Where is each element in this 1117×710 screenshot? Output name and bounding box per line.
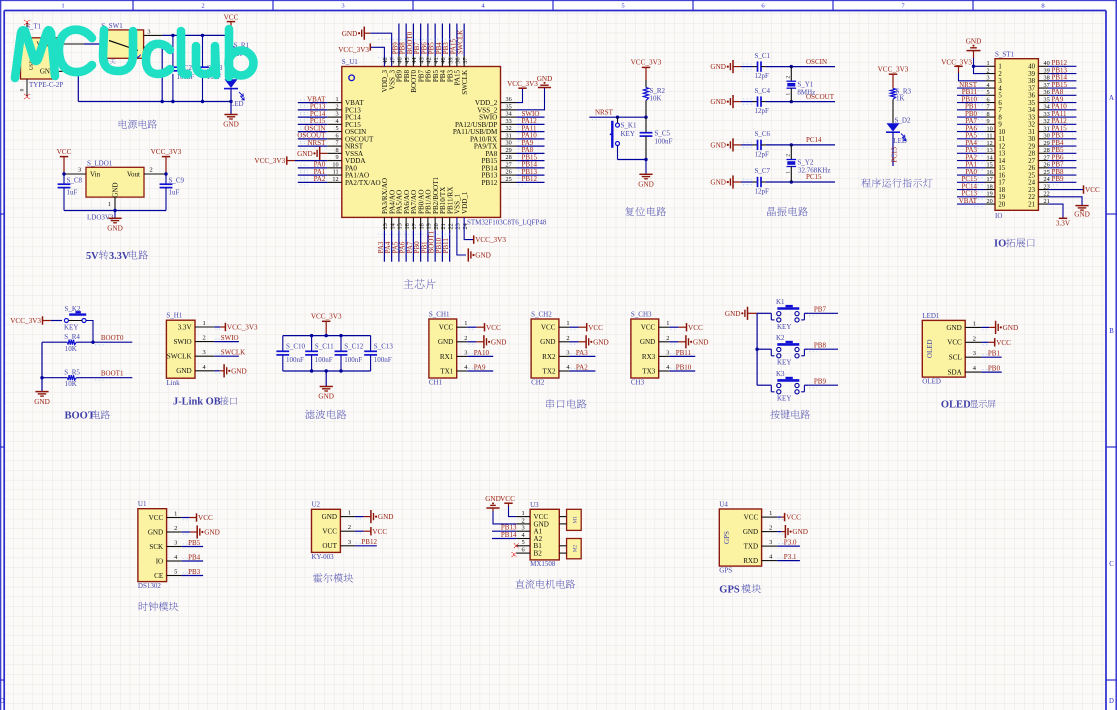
svg-text:23: 23 <box>455 223 462 229</box>
svg-text:15: 15 <box>397 223 404 229</box>
capacitor S_C12 100nF <box>335 336 364 371</box>
svg-text:17: 17 <box>998 180 1005 187</box>
svg-text:TX2: TX2 <box>542 367 555 375</box>
junction LDO input <box>62 172 65 175</box>
svg-text:VCC_3V3: VCC_3V3 <box>338 46 369 54</box>
junction filter top <box>310 334 343 337</box>
ST1 pin 16 stub <box>985 169 995 176</box>
svg-text:13: 13 <box>998 151 1005 158</box>
ground S_C7 <box>710 175 741 188</box>
ground pin 2 <box>777 525 808 538</box>
junction LDO gnd <box>113 209 116 212</box>
svg-text:12: 12 <box>998 143 1005 150</box>
svg-text:12pF: 12pF <box>755 107 770 115</box>
rtc U1 DS1302 pin 4 (IO) stub <box>167 554 182 561</box>
capacitor S_C2 100nF <box>167 64 195 81</box>
U1 pin 12 stub <box>327 176 342 183</box>
svg-text:VCC: VCC <box>322 528 337 536</box>
svg-text:37: 37 <box>1028 85 1035 92</box>
svg-text:PB9: PB9 <box>1052 175 1065 183</box>
ST1 pin 1 stub <box>985 60 995 67</box>
wire / net label PB12 <box>355 538 378 546</box>
ground pin 2 <box>569 335 608 348</box>
connector H1 J-Link pin 3 (SWCLK) stub <box>195 349 214 356</box>
wire / net label PB0 vertical <box>413 217 421 261</box>
T1 pin 2 GND stub <box>57 64 84 72</box>
svg-text:1K: 1K <box>896 95 905 103</box>
wire / net label PA15 <box>1048 124 1076 134</box>
power VCC pin 1 <box>777 513 801 522</box>
junction boot rail <box>40 376 43 379</box>
svg-text:100nF: 100nF <box>315 356 333 364</box>
wire / net label PA11 <box>517 124 545 134</box>
svg-text:KEY: KEY <box>64 323 78 331</box>
wire / net label PA3 vertical <box>377 217 385 261</box>
svg-text:VCC: VCC <box>57 148 72 156</box>
svg-text:2: 2 <box>786 154 792 157</box>
svg-text:S_R2: S_R2 <box>650 87 666 95</box>
wire / net label PB4 <box>182 553 204 561</box>
svg-text:1uF: 1uF <box>67 189 78 197</box>
svg-text:B2: B2 <box>534 550 543 558</box>
svg-text:GND: GND <box>638 181 654 189</box>
svg-text:S_C12: S_C12 <box>344 342 364 350</box>
U1 pin 27 stub <box>501 161 517 168</box>
svg-text:3: 3 <box>987 75 990 82</box>
ground ST1 pins 1-2 <box>966 38 986 74</box>
svg-text:6: 6 <box>987 96 990 103</box>
svg-text:GND: GND <box>223 121 239 129</box>
svg-text:PB10: PB10 <box>676 363 692 371</box>
svg-text:M2: M2 <box>573 544 579 552</box>
junction buttons rail K2 <box>755 348 758 351</box>
wire filter bottom rail <box>283 370 371 372</box>
svg-text:OLED: OLED <box>922 378 941 386</box>
power VCC_3V3 pin 1 <box>214 323 258 332</box>
svg-text:40: 40 <box>440 57 447 63</box>
regulator S_LDO1 LDO3V3 <box>86 160 144 198</box>
LDO pin 1 stub <box>108 197 115 210</box>
svg-text:45: 45 <box>404 57 411 63</box>
connector CH1 serial pin 4 (TX1) stub <box>457 364 469 371</box>
wire / net label SWCLK <box>214 349 245 357</box>
resistor S_R4 10K <box>42 333 93 353</box>
title main chip <box>403 279 435 289</box>
svg-text:1: 1 <box>348 510 351 517</box>
ground filter <box>318 371 334 401</box>
wire / net label NRST <box>957 81 985 91</box>
svg-text:40: 40 <box>1028 64 1035 71</box>
svg-text:VCC: VCC <box>149 514 164 522</box>
svg-text:15: 15 <box>998 165 1005 172</box>
svg-text:PB12: PB12 <box>361 538 377 546</box>
U1 pin 10 stub <box>327 161 342 168</box>
wire / net label SWCLK vertical <box>457 24 465 67</box>
svg-text:3: 3 <box>348 539 351 546</box>
wire / net label PA8 <box>1048 88 1076 98</box>
svg-text:46: 46 <box>397 57 404 63</box>
wire / net label PC13 <box>957 190 985 200</box>
svg-text:21: 21 <box>1028 201 1035 208</box>
svg-text:35: 35 <box>1028 100 1035 107</box>
U1 pin 42 number <box>426 57 433 63</box>
svg-text:PB4: PB4 <box>188 553 201 561</box>
svg-text:26: 26 <box>1028 165 1035 172</box>
wire U1 VSS_1 pin23 to GND <box>457 217 491 261</box>
title OLED display <box>941 399 996 410</box>
svg-text:36: 36 <box>1028 93 1035 100</box>
display LED1 OLED pin 2 (VCC) stub <box>965 335 981 342</box>
ST1 pin 15 stub <box>985 162 995 169</box>
U1 pin 35 stub <box>501 103 517 110</box>
svg-text:B: B <box>1109 328 1114 335</box>
junction top rail C3 <box>201 34 204 37</box>
svg-text:S_Y2: S_Y2 <box>797 159 813 167</box>
ST1 pin 39 stub <box>1038 67 1049 74</box>
U1 pin 38 number <box>455 57 462 63</box>
rtc U1 DS1302 pin 5 (CE) stub <box>167 569 182 576</box>
wire / net label PB10 <box>669 363 695 371</box>
wire / net label PB11 <box>669 349 695 357</box>
svg-text:GND: GND <box>438 338 453 346</box>
wire / net label PB14 <box>1048 74 1076 84</box>
svg-text:GND: GND <box>491 338 507 346</box>
svg-text:27: 27 <box>1028 158 1035 165</box>
wire / net label SWIO <box>214 334 239 342</box>
svg-text:1: 1 <box>786 171 792 174</box>
wire / net label PB3 vertical <box>442 24 450 67</box>
svg-text:VCC_3V3: VCC_3V3 <box>227 324 258 332</box>
power VCC pin 2 <box>981 338 1011 347</box>
U1 pin 16 number <box>404 223 411 229</box>
svg-text:VBAT: VBAT <box>959 197 978 205</box>
svg-text:2: 2 <box>769 525 772 532</box>
title clock module <box>139 602 179 611</box>
svg-text:3.3V: 3.3V <box>178 323 193 331</box>
wire / net label PA6 vertical <box>399 217 407 261</box>
U1 pin 41 number <box>433 57 440 63</box>
svg-text:1: 1 <box>108 201 111 208</box>
svg-text:VCC: VCC <box>198 514 213 522</box>
svg-text:K2: K2 <box>776 334 785 342</box>
U1 pin 21 number <box>440 223 447 229</box>
motor connector M2 <box>559 539 581 559</box>
svg-text:2: 2 <box>998 71 1002 78</box>
U1 pin 19 number <box>426 223 433 229</box>
svg-text:2: 2 <box>666 335 669 342</box>
connector H1 J-Link pin 2 (SWIO) stub <box>195 335 214 342</box>
rtc U1 DS1302 body <box>138 500 167 590</box>
wire / net label PB9 vertical <box>391 24 399 67</box>
wire S_C6 to net PC14 <box>766 136 835 145</box>
svg-text:44: 44 <box>411 57 418 63</box>
ST1 pin 19 stub <box>985 191 995 198</box>
svg-text:1: 1 <box>336 96 339 103</box>
wire / net label OSCIN <box>298 124 327 134</box>
wire / net label PA1 <box>298 168 327 178</box>
svg-text:20: 20 <box>433 223 440 229</box>
svg-text:21: 21 <box>440 223 447 229</box>
svg-text:VCC: VCC <box>588 324 603 332</box>
svg-text:VCC_3V3: VCC_3V3 <box>254 157 285 165</box>
svg-text:18: 18 <box>987 183 993 190</box>
MCUclub logo <box>15 29 254 78</box>
svg-text:28: 28 <box>506 154 512 161</box>
wire / net label PA9 <box>1048 95 1076 105</box>
svg-text:S_C10: S_C10 <box>286 342 306 350</box>
svg-text:1: 1 <box>769 510 772 517</box>
svg-text:11: 11 <box>333 169 339 176</box>
ST1 pin 11 stub <box>985 133 995 140</box>
power port VCC LDO input <box>57 148 72 174</box>
wire / net label PB13 <box>492 524 517 532</box>
svg-text:39: 39 <box>447 57 454 63</box>
wire VBUS to switch <box>84 43 101 45</box>
svg-text:2: 2 <box>566 335 569 342</box>
svg-text:SWIO: SWIO <box>221 334 239 342</box>
svg-text:GND: GND <box>204 529 220 537</box>
svg-text:KEY: KEY <box>777 359 791 367</box>
ground pin 1 <box>981 321 1018 334</box>
svg-text:20: 20 <box>987 198 993 205</box>
svg-text:S_C6: S_C6 <box>755 130 771 138</box>
wire / net label PB0 <box>981 365 1001 373</box>
svg-text:1: 1 <box>987 60 990 67</box>
junction crystal PC14 <box>790 143 793 146</box>
connector CH2 serial body <box>531 310 559 386</box>
svg-text:S_CH2: S_CH2 <box>531 310 552 318</box>
ST1 pin 3 stub <box>985 75 995 82</box>
svg-text:VCC_3V3: VCC_3V3 <box>631 59 662 67</box>
svg-text:3: 3 <box>203 349 206 356</box>
svg-text:20: 20 <box>998 201 1005 208</box>
ground pin 1 <box>355 510 394 523</box>
svg-text:MX1508: MX1508 <box>530 560 556 568</box>
svg-text:43: 43 <box>418 57 425 63</box>
svg-text:3: 3 <box>566 349 569 356</box>
wire bottom rail power circuit <box>78 71 231 101</box>
ST1 pin 4 stub <box>985 82 995 89</box>
svg-text:S_K1: S_K1 <box>621 122 637 130</box>
svg-text:PA2: PA2 <box>314 175 326 183</box>
svg-text:GND: GND <box>148 528 163 536</box>
svg-text:24: 24 <box>1028 180 1035 187</box>
U1 pin 47 number <box>389 57 396 63</box>
wire buttons left rail <box>756 313 758 385</box>
svg-text:VCC: VCC <box>224 13 239 21</box>
svg-text:KEY: KEY <box>777 323 791 331</box>
connector CH3 serial pin 3 (RX3) stub <box>659 349 670 356</box>
wire / net label BOOT1 <box>93 370 132 381</box>
capacitor S_C4 12pF <box>753 87 771 115</box>
connector CH1 serial pin 2 (GND) stub <box>457 335 468 342</box>
svg-text:A: A <box>1109 95 1114 102</box>
U1 pin 24 number <box>462 223 469 229</box>
ST1 pin 2 stub <box>985 67 995 74</box>
title J-Link OB <box>173 396 237 407</box>
wire / net label PB7 <box>808 306 838 316</box>
junction NRST <box>616 116 648 119</box>
ground pin 2 <box>467 335 506 348</box>
power VCC_3V3 boot <box>10 316 51 325</box>
svg-text:12: 12 <box>332 176 338 183</box>
svg-text:3: 3 <box>522 525 525 532</box>
power port VCC <box>224 13 239 35</box>
wire / net label PA7 <box>957 117 985 127</box>
svg-text:S_R5: S_R5 <box>64 369 80 377</box>
key S_K1 reset button <box>610 117 637 159</box>
wire LDO bottom rail <box>64 210 166 212</box>
svg-text:M1: M1 <box>573 516 579 524</box>
U1 pin 2 stub <box>327 103 342 110</box>
svg-text:36: 36 <box>506 96 512 103</box>
svg-text:3: 3 <box>174 540 177 547</box>
key S_K2 boot button <box>51 305 93 342</box>
svg-text:6: 6 <box>336 132 339 139</box>
svg-text:2: 2 <box>522 517 525 524</box>
wire / net label PB13 <box>1048 66 1076 76</box>
svg-text:GND: GND <box>231 367 247 375</box>
svg-text:1: 1 <box>998 64 1001 71</box>
wire U1 VDD_1 pin24 to VCC_3V3 <box>464 217 506 244</box>
wire / net label PA15 vertical <box>449 24 457 67</box>
svg-text:1: 1 <box>174 511 177 518</box>
svg-text:PB1: PB1 <box>988 350 1001 358</box>
svg-text:TYPE-C-2P: TYPE-C-2P <box>29 81 63 89</box>
junction top rail C2 <box>171 34 174 37</box>
svg-text:SCK: SCK <box>149 543 164 551</box>
svg-text:GND: GND <box>485 495 501 503</box>
svg-text:1: 1 <box>61 3 64 10</box>
capacitor S_C10 100nF <box>276 336 305 371</box>
svg-text:1: 1 <box>566 320 569 327</box>
svg-text:3.3V: 3.3V <box>109 251 130 262</box>
power VCC_3V3 ST1 pin 3 <box>941 58 985 80</box>
svg-text:GND: GND <box>640 338 655 346</box>
title crystal circuit <box>767 207 808 216</box>
wire / net label PC14 <box>298 110 327 120</box>
U1 pin 17 number <box>411 223 418 229</box>
ground S_C4 <box>710 95 741 108</box>
U1 pin 23 number <box>455 223 462 229</box>
svg-text:VCC: VCC <box>439 324 454 332</box>
ST1 pin 29 stub <box>1038 140 1049 147</box>
svg-text:S_LDO1: S_LDO1 <box>87 160 113 168</box>
ST1 pin 38 stub <box>1038 75 1049 82</box>
connector S_T1 TYPE-C-2P <box>21 23 64 89</box>
wire / net label BOOT0 vertical <box>406 24 414 67</box>
wire LED to PC13 / net label PC13 vertical <box>891 132 899 166</box>
ST1 pin 40 stub <box>1038 60 1049 67</box>
svg-text:LED1: LED1 <box>922 312 940 320</box>
svg-text:14: 14 <box>987 154 993 161</box>
svg-text:3: 3 <box>769 539 772 546</box>
svg-text:GND: GND <box>792 528 808 536</box>
svg-text:29: 29 <box>506 147 512 154</box>
wire / net label VBAT <box>298 95 327 105</box>
svg-text:S_C8: S_C8 <box>67 177 83 185</box>
LED S_D2 power <box>224 79 244 108</box>
svg-text:34: 34 <box>1028 107 1035 114</box>
connector CH2 serial pin 4 (TX2) stub <box>559 364 571 371</box>
resistor S_R5 10K <box>42 369 93 389</box>
svg-text:OLED: OLED <box>926 339 934 358</box>
svg-text:VCC: VCC <box>688 324 703 332</box>
wire / net label PB15 <box>1048 81 1076 91</box>
svg-text:PB7: PB7 <box>814 306 827 314</box>
dotted compile marks bottom pins <box>378 234 450 248</box>
power VCC pin 2 <box>355 527 387 536</box>
ST1 pin 35 stub <box>1038 96 1049 103</box>
svg-text:GND: GND <box>710 179 726 187</box>
capacitor S_C1 12pF <box>753 52 771 80</box>
svg-text:KEY: KEY <box>621 130 635 138</box>
SW1 pin 3 stub <box>144 29 163 36</box>
svg-text:BOOT0: BOOT0 <box>101 334 124 342</box>
svg-text:16: 16 <box>404 223 411 229</box>
wire / net label PB9 <box>808 377 838 387</box>
svg-text:IO: IO <box>994 239 1006 250</box>
svg-text:GPS: GPS <box>719 567 732 575</box>
wire / net label PB12 <box>1048 59 1076 69</box>
power VCC pin 1 <box>467 323 501 332</box>
svg-text:7: 7 <box>336 140 339 147</box>
connector S_ST1 IO header body <box>995 51 1038 220</box>
svg-text:25: 25 <box>1028 172 1035 179</box>
svg-text:S_H1: S_H1 <box>166 312 182 320</box>
wire / net label PB7 vertical <box>413 24 421 67</box>
svg-text:1: 1 <box>786 93 792 96</box>
svg-text:SWCLK: SWCLK <box>221 349 246 357</box>
wire / net label VBAT <box>957 197 985 207</box>
svg-text:31: 31 <box>1028 129 1035 136</box>
svg-text:8: 8 <box>998 114 1002 121</box>
junction BOOT0 <box>91 341 94 344</box>
wire / net label PA6 <box>957 124 985 134</box>
svg-text:13: 13 <box>987 147 993 154</box>
svg-text:GND: GND <box>342 30 358 38</box>
connector CH3 serial pin 1 (VCC) stub <box>659 320 670 327</box>
svg-text:VCC: VCC <box>372 528 387 536</box>
svg-text:TXD: TXD <box>744 543 759 551</box>
svg-text:Link: Link <box>166 379 180 387</box>
rtc U1 DS1302 pin 2 (GND) stub <box>167 525 182 532</box>
svg-text:42: 42 <box>426 57 433 63</box>
svg-text:RXD: RXD <box>743 557 758 565</box>
svg-text:VCC_3V3: VCC_3V3 <box>475 236 506 244</box>
svg-text:12pF: 12pF <box>755 72 770 80</box>
svg-text:GND: GND <box>1074 210 1090 218</box>
svg-text:3: 3 <box>147 29 150 36</box>
wire / net label PB11 vertical <box>442 217 450 261</box>
power VCC_3V3 indicator <box>878 65 909 88</box>
svg-text:35: 35 <box>506 103 512 110</box>
svg-text:100nF: 100nF <box>344 356 362 364</box>
mcu U1 STM32F103C8T6 body <box>342 58 547 227</box>
wire / net label PB5 vertical <box>428 24 436 67</box>
motor connector M1 <box>559 509 581 530</box>
wire / net label PA3 <box>569 349 595 357</box>
power VCC pin 1 <box>569 323 603 332</box>
svg-text:2: 2 <box>150 167 153 174</box>
svg-text:GND: GND <box>593 338 609 346</box>
svg-text:S_C1: S_C1 <box>755 52 771 60</box>
svg-text:8: 8 <box>336 147 339 154</box>
wire / net label P3.1 <box>777 553 800 561</box>
ST1 pin 34 stub <box>1038 104 1049 111</box>
connector H1 J-Link pin 4 (GND) stub <box>195 364 214 371</box>
hall U2 KY-003 pin 2 (VCC) stub <box>340 524 355 531</box>
